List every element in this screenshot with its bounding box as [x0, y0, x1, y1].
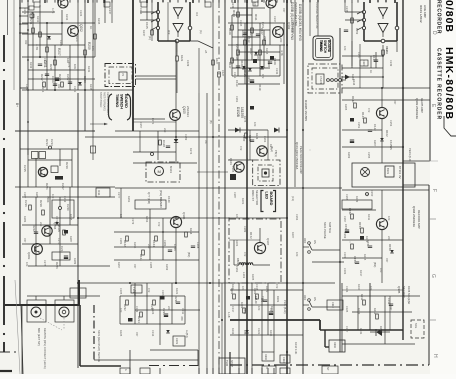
svg-text:R263: R263	[351, 74, 355, 81]
svg-text:R162: R162	[123, 240, 127, 247]
rail y100 right	[342, 99, 430, 101]
thick wire left vert	[78, 280, 80, 305]
connector dash box outer	[308, 64, 342, 93]
wire x232 v	[231, 15, 233, 76]
svg-text:022: 022	[57, 84, 61, 89]
svg-text:C124: C124	[362, 60, 365, 66]
heavy trace center	[229, 352, 231, 374]
svg-text:IC11: IC11	[97, 190, 101, 196]
wire x370 vO	[369, 283, 371, 330]
svg-text:472: 472	[147, 288, 151, 293]
wire x121 center	[120, 188, 122, 218]
svg-text:C233: C233	[139, 8, 143, 15]
capacitor C118	[166, 145, 170, 147]
wire x55 v	[54, 45, 56, 90]
wire x50 v mid	[49, 187, 51, 244]
corner stub rails	[20, 7, 28, 9]
box mid small	[52, 200, 74, 218]
svg-text:047: 047	[393, 100, 397, 105]
svg-text:4.7K: 4.7K	[67, 62, 71, 68]
extra rail y172 center	[197, 171, 228, 173]
svg-text:BOARD: BOARD	[327, 40, 331, 53]
svg-text:C325: C325	[345, 306, 349, 313]
svg-text:(C1): (C1)	[291, 196, 295, 201]
extra rail y56 right	[342, 55, 383, 57]
svg-text:A-(B4): A-(B4)	[185, 330, 189, 338]
extra vert x152 top	[151, 0, 153, 41]
transistor Q104	[376, 218, 387, 229]
svg-text:R166: R166	[189, 228, 193, 235]
svg-text:C118: C118	[162, 140, 166, 147]
bottom cluster small boxes	[262, 352, 274, 361]
top-left rail y90	[22, 89, 133, 91]
rail y130 right	[342, 129, 382, 131]
resistor R125	[159, 140, 162, 145]
svg-text:R297: R297	[117, 262, 121, 269]
resistor Ro1	[363, 300, 366, 305]
svg-text:C221: C221	[23, 8, 27, 15]
svg-text:Q204: Q204	[53, 222, 57, 230]
svg-text:R109: R109	[228, 28, 232, 35]
svg-text:150K: 150K	[46, 196, 50, 203]
svg-text:047: 047	[282, 8, 286, 13]
svg-text:BOARD: BOARD	[269, 192, 273, 206]
left border wire	[19, 0, 21, 306]
record block top rail	[342, 189, 429, 191]
timing box feed wires	[309, 0, 311, 36]
resistor R109	[231, 25, 234, 30]
svg-text:R158: R158	[388, 244, 392, 251]
svg-text:R331: R331	[243, 308, 247, 315]
small box M2	[173, 336, 185, 346]
cap C-f1	[344, 29, 348, 31]
junction dots top-left	[46, 22, 48, 24]
dash box O right	[411, 320, 424, 338]
wire tri out	[382, 33, 384, 38]
svg-text:R121: R121	[180, 55, 184, 62]
rail N y305	[230, 304, 287, 306]
cap Cm2	[176, 301, 180, 303]
transistor Q107	[254, 242, 265, 253]
connector wires right	[342, 79, 346, 81]
ecap Cn2	[269, 311, 273, 313]
svg-text:R285: R285	[69, 214, 73, 221]
svg-text:103: 103	[253, 122, 257, 127]
resistor R117	[231, 58, 234, 63]
small rect above jack	[70, 288, 86, 298]
svg-text:R114: R114	[232, 10, 236, 17]
top edge tiny boxes	[34, 2, 40, 7]
svg-text:C291: C291	[235, 266, 239, 273]
svg-text:(A): (A)	[199, 30, 203, 34]
head center dot	[264, 171, 267, 174]
svg-text:D203: D203	[83, 76, 87, 83]
thick feedback box left	[157, 2, 159, 41]
black blob bottom d2	[230, 174, 236, 180]
dash-dot box center bottom	[229, 219, 281, 283]
svg-text:047: 047	[135, 332, 139, 337]
svg-text:R279: R279	[245, 158, 249, 165]
svg-text:C310: C310	[282, 357, 285, 363]
svg-text:C227: C227	[43, 58, 47, 65]
svg-text:C259: C259	[184, 134, 188, 141]
svg-text:IC2: IC2	[195, 12, 199, 17]
svg-text:2SB405: 2SB405	[57, 222, 61, 232]
svg-text:C211: C211	[29, 18, 33, 25]
wire x262 vN	[261, 290, 263, 352]
bottom-left edge mark	[0, 370, 12, 372]
center bottom rail y283	[78, 282, 335, 284]
svg-text:R275: R275	[243, 116, 247, 123]
svg-text:L101: L101	[242, 272, 246, 279]
svg-text:C234: C234	[162, 308, 166, 315]
diode D203	[78, 82, 82, 85]
svg-text:C303: C303	[343, 268, 347, 275]
svg-text:R291: R291	[127, 196, 131, 203]
svg-text:D102B 1S1555: D102B 1S1555	[304, 100, 308, 121]
svg-text:R273: R273	[189, 148, 193, 155]
bus wire x207	[206, 93, 208, 374]
top-center rail y30	[238, 29, 270, 31]
TIMING SWITCH BOARD label bracket	[109, 94, 113, 120]
svg-text:R299: R299	[165, 264, 169, 271]
wire x176 v	[175, 40, 177, 110]
svg-text:TIMING: TIMING	[115, 94, 119, 107]
svg-text:R335: R335	[269, 330, 273, 337]
svg-text:R261: R261	[385, 48, 389, 55]
svg-text:C235: C235	[239, 20, 243, 27]
block O border	[341, 283, 343, 352]
svg-text:R283: R283	[23, 216, 27, 223]
svg-text:Q203: Q203	[27, 252, 31, 260]
extra rail y122 center	[133, 121, 176, 123]
bus wire x199	[198, 93, 200, 374]
diode D101	[248, 68, 252, 71]
resistor R103	[251, 28, 254, 33]
cap Co1	[389, 303, 393, 305]
bottom edge small boxes	[120, 368, 130, 374]
diode Dg1	[380, 138, 384, 141]
svg-text:C213: C213	[50, 139, 54, 146]
svg-text:R247: R247	[142, 30, 146, 37]
top-left rail y12	[22, 11, 55, 13]
svg-text:PB(1): PB(1)	[274, 150, 278, 157]
svg-text:(B): (B)	[209, 120, 213, 124]
svg-text:Q101,Q102 2SC634A: Q101,Q102 2SC634A	[295, 142, 299, 169]
svg-text:R117: R117	[228, 62, 232, 69]
switch OFF-ON lower	[308, 299, 311, 302]
wire x260 v	[259, 23, 261, 76]
svg-text:C279: C279	[131, 218, 135, 225]
wire diag to bus	[190, 40, 198, 42]
connector dash box inner	[312, 68, 338, 89]
svg-text:S101 PAUSE: S101 PAUSE	[323, 222, 327, 239]
resistor Rk1	[351, 214, 354, 219]
svg-text:C319: C319	[269, 308, 273, 315]
svg-text:R312: R312	[360, 294, 364, 301]
svg-text:R327: R327	[231, 284, 235, 291]
cap Cd2a	[250, 139, 254, 141]
rail y188 center long	[115, 187, 342, 189]
svg-text:C224: C224	[60, 246, 64, 253]
svg-text:LED: LED	[265, 192, 269, 200]
svg-text:SEL/D: SEL/D	[254, 296, 258, 304]
connector pin circles	[327, 79, 330, 82]
misc speckle 2	[310, 150, 311, 151]
svg-text:D102: D102	[385, 130, 389, 137]
long narrow rect center	[135, 200, 166, 209]
resistor Rn2	[243, 308, 246, 313]
svg-text:C231: C231	[73, 86, 77, 93]
extra vert x360 mid	[359, 44, 361, 88]
svg-text:R233: R233	[65, 14, 69, 21]
extra vert x222 low	[221, 283, 223, 374]
rail y225 left	[22, 224, 78, 226]
diode Dm1	[166, 330, 170, 333]
svg-text:047: 047	[385, 258, 389, 263]
svg-text:C243: C243	[275, 68, 279, 75]
svg-text:FAST FORWARD: FAST FORWARD	[103, 92, 106, 111]
title box corner	[444, 116, 456, 136]
svg-text:R319: R319	[133, 290, 137, 297]
wire x112 top	[111, 0, 113, 23]
cap Ck1	[368, 245, 372, 247]
svg-text:R317: R317	[359, 270, 363, 277]
bus wire x219 dash-dot	[218, 0, 220, 374]
svg-text:C253: C253	[389, 120, 393, 127]
resistor Rh1	[29, 205, 32, 210]
resistor R215b	[43, 82, 46, 87]
svg-text:P101 (B-W): P101 (B-W)	[283, 300, 287, 314]
jack box 2	[55, 300, 74, 322]
arrow wire label left	[90, 123, 107, 125]
extra vert x168 top	[167, 2, 169, 41]
svg-text:C257: C257	[139, 122, 143, 129]
svg-text:YE01 (0-0): YE01 (0-0)	[408, 148, 412, 162]
wire coil	[234, 264, 239, 266]
wire x130 bottom	[129, 350, 131, 374]
connector small box	[316, 74, 324, 84]
mid rail y152	[133, 151, 176, 153]
cluster under triangles	[382, 50, 385, 55]
svg-text:R245: R245	[89, 84, 93, 91]
rail y149 left	[20, 148, 78, 150]
rail y160 left	[28, 159, 72, 161]
rail y187 left long	[15, 186, 115, 188]
svg-text:STOP>TIMER: STOP>TIMER	[99, 92, 102, 108]
svg-text:B+: B+	[15, 103, 19, 107]
cap Ci1	[168, 249, 172, 251]
svg-text:223: 223	[39, 222, 43, 227]
svg-text:TIMING: TIMING	[319, 40, 323, 52]
svg-text:472: 472	[275, 284, 279, 289]
svg-text:103: 103	[25, 262, 29, 267]
rail y160 center	[228, 159, 253, 161]
svg-text:RECORDER: RECORDER	[436, 0, 442, 34]
cap Ck2	[355, 261, 359, 263]
bus wire x403 thick	[402, 0, 404, 340]
svg-text:103: 103	[387, 216, 391, 221]
thick wire left vert low	[79, 305, 81, 366]
svg-text:1S1555: 1S1555	[389, 140, 393, 150]
top-left rail y79	[28, 78, 95, 80]
wire y350 bottom	[150, 349, 198, 351]
jack J201 MIC	[31, 307, 41, 317]
svg-text:D801 ST: D801 ST	[251, 190, 255, 201]
ecap Ck3	[345, 229, 349, 231]
wire x160 vM	[159, 296, 161, 345]
svg-text:R325: R325	[119, 330, 123, 337]
resistor R-f1	[351, 18, 354, 23]
junction dots various	[175, 136, 177, 138]
svg-text:472: 472	[239, 146, 243, 151]
right block border upper	[429, 0, 431, 161]
svg-text:R277: R277	[269, 144, 273, 151]
svg-text:R249: R249	[231, 2, 235, 9]
svg-text:R295: R295	[133, 242, 137, 249]
svg-text:103: 103	[295, 252, 299, 257]
Q106 area extra	[185, 232, 188, 237]
svg-text:4.7K: 4.7K	[51, 8, 55, 14]
wire x150 v center	[149, 209, 151, 260]
svg-text:H: H	[432, 354, 438, 358]
wire x72 left mid	[71, 149, 73, 187]
rail y147 right	[342, 146, 403, 148]
wire jack top	[27, 295, 100, 297]
dash-dot box outer left	[105, 64, 136, 87]
resistor R209	[84, 50, 87, 55]
transistor Q101b	[234, 162, 244, 172]
svg-text:C271: C271	[55, 216, 59, 223]
jack J202 EXT SP	[59, 307, 69, 317]
misc speckle 1	[350, 242, 351, 243]
center rail y218	[78, 217, 230, 219]
bus wire x287 thick	[286, 0, 288, 374]
margin tick E	[429, 160, 438, 162]
svg-text:R311: R311	[367, 214, 371, 221]
wire from junction down	[396, 41, 398, 52]
left lower vert thin	[21, 306, 23, 374]
capacitor C203	[45, 73, 49, 75]
junction dot set 2	[246, 22, 248, 24]
top-left rail y45	[28, 44, 85, 46]
svg-text:R310 3.3K: R310 3.3K	[294, 342, 298, 355]
wire y366 corner	[80, 365, 121, 367]
resistor Rg1	[354, 103, 357, 108]
svg-text:C104: C104	[241, 30, 245, 38]
svg-text:R289: R289	[73, 258, 77, 265]
resistor R203	[39, 32, 42, 37]
top-center rail y15	[232, 14, 252, 16]
svg-text:C249: C249	[389, 60, 393, 67]
wire x78t v	[77, 0, 79, 90]
svg-text:C281: C281	[119, 238, 123, 245]
transistor Q202	[68, 26, 79, 37]
wire Q104 down	[381, 230, 383, 283]
svg-text:SEL303C: SEL303C	[402, 286, 406, 298]
svg-text:D105B (S)1033, H04 YN0: D105B (S)1033, H04 YN0	[290, 2, 294, 40]
svg-text:R227: R227	[40, 74, 44, 81]
junction circle left pair	[188, 26, 192, 30]
wire x60 left mid	[59, 149, 61, 166]
svg-text:B101: B101	[386, 168, 390, 175]
svg-text:047: 047	[389, 306, 393, 311]
svg-text:R329: R329	[265, 286, 269, 293]
diode Dh1	[55, 222, 59, 225]
transistor Q101	[266, 0, 276, 8]
svg-text:10K: 10K	[235, 55, 239, 60]
svg-text:C293: C293	[295, 214, 299, 221]
svg-text:D106 SOL(E)W: D106 SOL(E)W	[407, 286, 411, 305]
black blob mark	[253, 59, 257, 63]
svg-text:1K: 1K	[369, 70, 373, 73]
svg-text:D107: D107	[249, 48, 253, 55]
rail O y312	[352, 311, 412, 313]
svg-text:047: 047	[133, 264, 137, 269]
thick wire left horiz	[5, 304, 80, 306]
svg-text:C309: C309	[135, 306, 139, 313]
component under triangle	[176, 56, 179, 61]
bus wire x340	[339, 28, 341, 352]
wire x185 vM	[184, 296, 186, 324]
extra vert x390 low	[389, 296, 391, 330]
wire x33 v	[32, 12, 34, 90]
left margin dash-dot fold line	[3, 35, 5, 62]
resistor Ro2	[376, 314, 379, 319]
center rail y232	[114, 231, 199, 233]
top-left top wire ticks	[44, 0, 46, 3]
transistor Q106	[170, 216, 181, 227]
svg-text:R301: R301	[241, 198, 245, 205]
long rail y137	[85, 136, 247, 138]
switch contact circles left	[156, 10, 159, 13]
svg-text:R236: R236	[174, 296, 178, 303]
svg-text:C209: C209	[51, 76, 55, 83]
svg-text:C251: C251	[357, 122, 361, 129]
wire x140 mid	[139, 131, 141, 152]
wire Q107 up	[259, 228, 261, 242]
svg-text:223: 223	[387, 236, 391, 241]
contact circle mid	[59, 207, 62, 210]
svg-text:D801S: D801S	[236, 258, 240, 266]
head nested box outer	[253, 160, 280, 186]
svg-text:10K: 10K	[91, 46, 95, 51]
svg-text:C245: C245	[345, 6, 349, 13]
svg-text:C247: C247	[108, 8, 112, 15]
diag faint left	[15, 280, 20, 374]
wire x163 v center	[162, 218, 164, 260]
small box M1	[131, 285, 142, 293]
svg-text:BOARD: BOARD	[124, 94, 128, 108]
svg-text:SELECTOR: SELECTOR	[255, 190, 259, 205]
bottom dash-dot border left	[0, 351, 20, 353]
rail x28 junction dots	[27, 29, 29, 31]
svg-text:C307: C307	[161, 290, 165, 297]
svg-text:(PH) BOARD: (PH) BOARD	[159, 190, 163, 209]
svg-text:C311: C311	[181, 308, 185, 315]
svg-text:VOLTAGE SELECTOR: VOLTAGE SELECTOR	[315, 2, 319, 29]
wire x105 v	[104, 0, 106, 23]
svg-text:R315: R315	[363, 254, 367, 261]
svg-text:IC3: IC3	[167, 30, 171, 35]
long vertical x93	[92, 0, 94, 131]
thick elbow to block	[319, 320, 321, 330]
cap C209	[53, 83, 57, 85]
capacitor C103	[236, 65, 240, 67]
corner vertical x14	[13, 0, 15, 90]
svg-text:4.7K: 4.7K	[280, 50, 284, 56]
wire x85 v	[84, 0, 86, 131]
